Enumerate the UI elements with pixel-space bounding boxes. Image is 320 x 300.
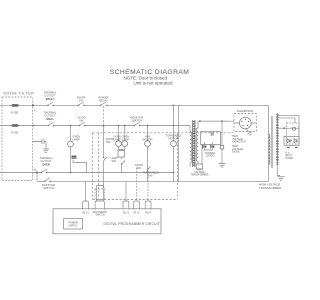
svg-text:SCHEMATIC DIAGRAM: SCHEMATIC DIAGRAM — [110, 69, 190, 76]
ground (HV) — [219, 164, 226, 168]
svg-text:LAMP: LAMP — [113, 138, 121, 142]
turntable motor column — [173, 105, 175, 181]
secondary interlock column — [104, 126, 107, 189]
relay RLY1 — [83, 201, 89, 210]
svg-text:OVEN: OVEN — [113, 135, 121, 139]
svg-text:MAGNETRON: MAGNETRON — [237, 110, 253, 113]
voltage doubler box — [201, 132, 221, 145]
diode D2 — [211, 145, 215, 149]
junction dots — [0, 0, 1, 1]
svg-text:LAMP: LAMP — [122, 138, 130, 142]
HV line to magnetron — [198, 121, 234, 145]
svg-text:NOTE: Door is closed: NOTE: Door is closed — [124, 76, 168, 81]
pin marks — [287, 147, 298, 149]
svg-text:RLY4: RLY4 — [145, 212, 151, 215]
wire bottom rail — [37, 180, 269, 182]
noise filter dashed box — [2, 97, 33, 181]
svg-text:NOISE FILTER: NOISE FILTER — [4, 92, 35, 96]
diode D1 — [203, 145, 207, 149]
svg-text:L: L — [34, 108, 36, 112]
magnetron tube — [240, 117, 252, 129]
svg-text:OVEN: OVEN — [42, 163, 50, 167]
svg-text:SWITCH: SWITCH — [43, 186, 54, 190]
svg-text:TURNTABLE: TURNTABLE — [143, 171, 159, 175]
monitor loop drop — [36, 173, 38, 182]
diode D3 — [287, 139, 292, 143]
RLY1 feed wire — [85, 181, 87, 201]
node L — [32, 104, 36, 112]
svg-text:TURNTABLE: TURNTABLE — [166, 134, 182, 138]
HV capacitor square — [220, 145, 224, 149]
svg-text:RLY2: RLY2 — [134, 212, 140, 215]
wire doubler to terminal box — [201, 145, 203, 165]
svg-text:SWITCH: SWITCH — [131, 119, 142, 123]
transformer T1 secondary winding — [197, 126, 199, 128]
svg-text:DIODE: DIODE — [232, 151, 240, 154]
lamp pair switch — [122, 161, 125, 165]
svg-text:FUSE: FUSE — [11, 111, 18, 115]
svg-text:LAMP: LAMP — [110, 156, 118, 160]
thermal cutout switch (L2) — [48, 122, 54, 125]
wire L1 (top bus) — [0, 104, 269, 106]
secondary rectifier dashed box — [287, 123, 300, 144]
transformer T1 terminal box — [197, 164, 203, 169]
svg-text:FUSE: FUSE — [11, 131, 18, 135]
T2 bottom lead + ground — [277, 165, 280, 176]
monitor switch (bottom rail) — [45, 178, 51, 182]
fan switch — [148, 167, 151, 171]
dashed enclosure (control section) — [93, 133, 178, 200]
svg-text:SW.: SW. — [79, 99, 84, 103]
title: SCHEMATIC DIAGRAM — [110, 69, 190, 86]
thermal cutout switch (L1) — [48, 102, 54, 105]
ground (noise filter) — [43, 149, 49, 153]
digital programmer circuit box — [53, 209, 161, 234]
svg-text:DOOR: DOOR — [77, 96, 85, 100]
svg-text:MONITOR: MONITOR — [42, 183, 55, 187]
filament tap line — [279, 127, 300, 129]
fuse F1 — [11, 104, 20, 107]
fan motor FM — [145, 141, 151, 147]
svg-text:DOOR: DOOR — [77, 116, 85, 120]
node N — [33, 125, 39, 174]
fuse F2 — [11, 124, 20, 127]
interlock switch 1 (L1) — [78, 102, 84, 105]
svg-text:RLY1: RLY1 — [82, 211, 89, 215]
svg-text:SWITCH: SWITCH — [95, 215, 104, 217]
svg-text:CUTOUT: CUTOUT — [44, 114, 56, 118]
svg-text:RECT.: RECT. — [286, 155, 293, 157]
svg-text:SW.: SW. — [112, 159, 117, 163]
power supply box — [64, 219, 83, 229]
transformer T1 core — [193, 120, 196, 167]
svg-text:TRANSFORMER: TRANSFORMER — [259, 186, 281, 190]
svg-text:SW.: SW. — [106, 140, 111, 144]
svg-text:FAN: FAN — [145, 135, 150, 139]
svg-text:MONITOR: MONITOR — [130, 116, 143, 120]
svg-text:CAPACITOR: CAPACITOR — [232, 141, 246, 144]
capacitor to chassis from noise filter — [33, 139, 47, 149]
interlock switch 2 (L2) — [79, 122, 85, 125]
svg-text:THERMAL: THERMAL — [44, 111, 57, 115]
svg-text:(MAG.): (MAG.) — [46, 97, 55, 101]
svg-text:HIGH: HIGH — [197, 170, 203, 172]
relay RLY3 — [123, 201, 129, 210]
svg-text:SUPPLY: SUPPLY — [68, 225, 78, 228]
diode D4 — [294, 139, 297, 143]
oven lamp column — [70, 126, 72, 173]
dashed link to magnetron area — [178, 132, 235, 134]
pilot glyph in dashed box — [292, 127, 295, 130]
svg-text:DIODE: DIODE — [206, 155, 214, 158]
HV transformer T2: primary winding on loop wire — [269, 134, 271, 164]
svg-text:MOTOR: MOTOR — [143, 138, 153, 142]
svg-text:CUTOUT: CUTOUT — [40, 159, 52, 163]
svg-text:THERMAL: THERMAL — [44, 91, 57, 95]
svg-text:THERMAL: THERMAL — [40, 156, 53, 160]
oven lamp OL — [68, 141, 74, 147]
svg-text:POWER: POWER — [98, 96, 108, 100]
HV transformer T2 secondary (toothed bar) — [276, 113, 279, 165]
T2 top leads — [277, 116, 299, 137]
lamp thermal mark + branch — [72, 156, 77, 158]
HV loop right vertical — [268, 105, 270, 181]
svg-text:RLY3: RLY3 — [123, 212, 129, 215]
lamp B — [122, 141, 128, 147]
rectifier solid box — [284, 137, 299, 146]
turntable motor TM — [171, 141, 177, 147]
svg-text:DIGITAL PROGRAMMER CIRCUIT: DIGITAL PROGRAMMER CIRCUIT — [104, 222, 160, 226]
svg-text:OVEN: OVEN — [73, 135, 81, 139]
lamp A — [116, 141, 122, 147]
svg-text:CUTOUT: CUTOUT — [44, 94, 56, 98]
svg-text:MAG.: MAG. — [46, 117, 53, 121]
monitor switch (L2) — [134, 122, 140, 125]
svg-text:DOOR: DOOR — [135, 163, 143, 167]
svg-text:RELAY: RELAY — [99, 99, 108, 103]
svg-text:SW.: SW. — [148, 174, 153, 178]
transformer T1 primary winding — [189, 126, 191, 132]
svg-text:SW.: SW. — [79, 119, 84, 123]
dashed control wire from relay down to L2 — [103, 106, 105, 125]
capacitor inside doubler — [211, 132, 213, 136]
wire N rail — [0, 172, 175, 174]
svg-text:N: N — [34, 168, 36, 172]
secondary switch dashed box — [95, 189, 105, 200]
svg-text:SW.: SW. — [137, 166, 142, 170]
thermal cutout switch (N rail) — [41, 169, 47, 172]
svg-text:OVEN: OVEN — [122, 135, 130, 139]
svg-text:DIODE: DIODE — [286, 158, 294, 160]
svg-text:Unit is not operated: Unit is not operated — [134, 81, 174, 86]
lamp pair columns — [119, 126, 125, 173]
svg-text:MOTOR: MOTOR — [169, 137, 179, 141]
wire L2 (second bus) — [0, 125, 190, 127]
HV loop left vertical — [178, 105, 180, 181]
svg-text:H.V.: H.V. — [286, 153, 291, 155]
svg-text:LAMP: LAMP — [73, 138, 81, 142]
relay contact RY (L1) — [100, 102, 106, 105]
magnetron dashed box — [234, 114, 257, 132]
secondary switch relay — [95, 201, 104, 210]
fan motor column — [147, 126, 149, 182]
relay RLY2 — [134, 201, 140, 210]
svg-text:SECONDARY: SECONDARY — [93, 211, 108, 214]
HV transformer T2 core — [272, 116, 273, 168]
relay RLY4 — [145, 201, 151, 210]
magnetron antenna — [245, 129, 252, 135]
